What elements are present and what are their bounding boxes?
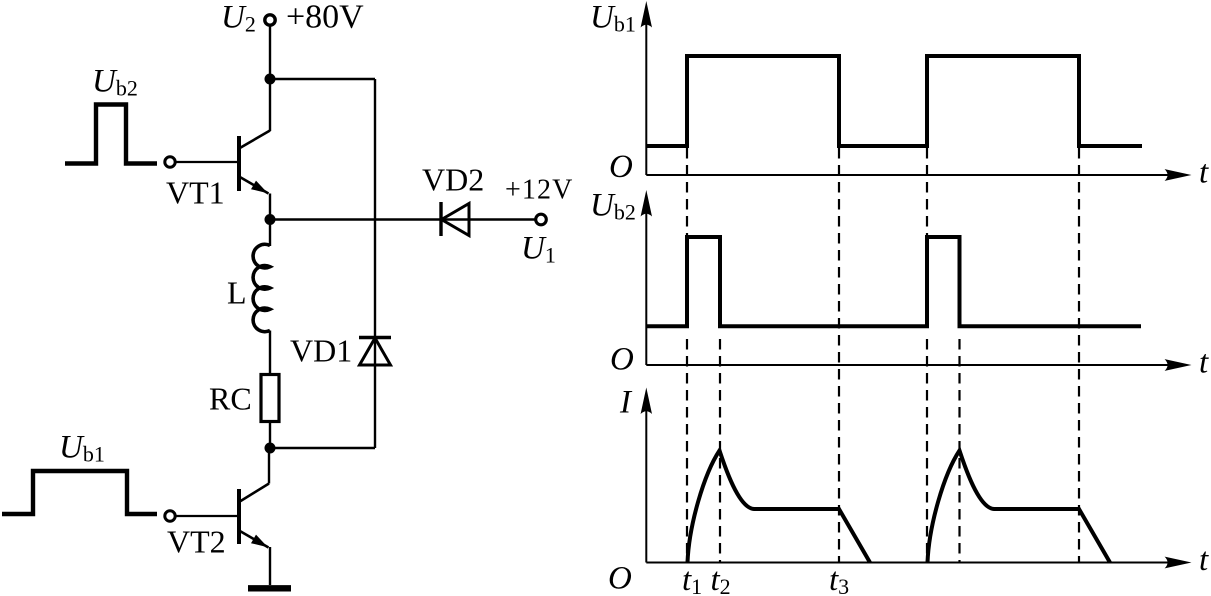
chart 3 y-axis (645, 408, 647, 563)
diode VD1 (359, 338, 391, 366)
terminal U1 (536, 214, 547, 225)
wire node C to right branch (270, 447, 375, 449)
wire U2 down to VT1 collector (269, 26, 271, 131)
waveform I cycle 2 (928, 451, 1111, 563)
waveform Ub2 (646, 237, 1141, 326)
svg-text:I: I (619, 385, 633, 421)
diode VD2 (441, 202, 469, 236)
svg-text:VT2: VT2 (167, 524, 226, 560)
terminal circle VT2 base (165, 511, 175, 521)
chart 2 y-axis (645, 211, 647, 365)
dashed line t2 (719, 339, 721, 563)
chart 1 y-axis (645, 22, 647, 175)
wire node A to right branch (270, 78, 375, 80)
svg-text:t: t (1199, 345, 1209, 381)
dashed line t2' (958, 339, 960, 563)
svg-text:VD2: VD2 (422, 162, 484, 198)
pulse source Ub2 symbol (65, 105, 157, 164)
svg-text:VT1: VT1 (166, 175, 225, 211)
terminal U2 (+80V supply) (265, 15, 275, 25)
svg-text:RC: RC (209, 381, 252, 417)
dashed line t1 (686, 148, 688, 563)
svg-text:VD1: VD1 (290, 333, 352, 369)
dashed line t1' (926, 148, 928, 563)
chart 3 x-axis (646, 562, 1170, 564)
transistor VT1 (239, 131, 270, 194)
inductor L (253, 244, 270, 331)
transistor VT2 (239, 484, 269, 548)
pulse source Ub1 symbol (2, 471, 157, 514)
dashed line t3 (838, 148, 840, 563)
resistor RC (261, 375, 279, 422)
chart 1 x-axis (646, 174, 1170, 176)
waveform Ub1 (646, 56, 1142, 146)
terminal circle VT1 base (165, 157, 175, 167)
wire base VT1 (177, 161, 240, 163)
svg-text:+80V: +80V (286, 0, 364, 36)
dashed line t3' (1078, 148, 1080, 563)
wire right branch vertical (through VD1) (374, 79, 376, 448)
node C junction dot (265, 443, 276, 454)
ground (248, 585, 291, 591)
wire VT2 collector up to node C (268, 448, 270, 484)
node B junction dot (VT1 emitter) (265, 214, 276, 225)
wire node B to U1 terminal (270, 218, 535, 220)
wire VT1 emitter down (269, 194, 271, 247)
wire base VT2 (177, 515, 240, 517)
svg-text:t: t (1199, 542, 1209, 578)
wire L to RC (269, 331, 271, 375)
svg-text:O: O (609, 149, 633, 185)
waveform I cycle 1 (688, 451, 871, 563)
svg-text:O: O (610, 342, 634, 378)
svg-text:+12V: +12V (505, 175, 573, 206)
svg-text:t: t (1199, 155, 1209, 191)
svg-text:L: L (227, 275, 247, 311)
wire RC down to node C (269, 422, 271, 449)
chart 2 x-axis (646, 364, 1170, 366)
wire VT2 emitter to ground (269, 547, 271, 585)
node A junction dot top (265, 74, 276, 85)
svg-text:O: O (608, 561, 632, 596)
